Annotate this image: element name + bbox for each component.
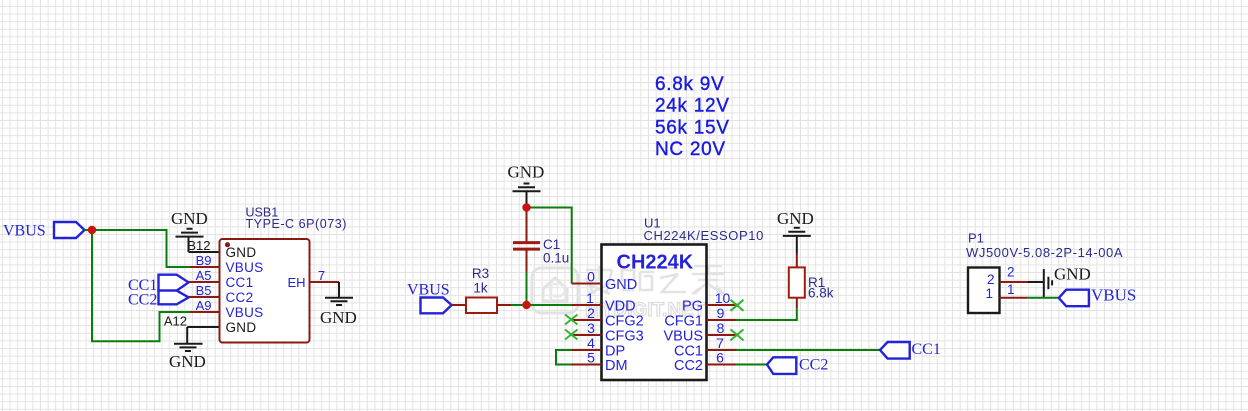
- svg-text:VBUS: VBUS: [664, 329, 704, 345]
- svg-text:CH224K/ESSOP10: CH224K/ESSOP10: [644, 228, 764, 243]
- svg-text:B12: B12: [187, 238, 210, 253]
- svg-text:GND: GND: [605, 277, 637, 293]
- wire GND to B12 pin: [189, 251, 220, 253]
- connector P1 body: [966, 231, 1123, 314]
- U1 pin 9 CFG1: [664, 305, 736, 330]
- svg-text:GND: GND: [777, 209, 814, 228]
- U1 pin 6 CC2: [674, 350, 736, 375]
- U1 pin 5 DM: [572, 350, 628, 375]
- svg-text:CC1: CC1: [226, 275, 254, 290]
- svg-text:TYPE-C 6P(073): TYPE-C 6P(073): [246, 217, 347, 231]
- wire GND junction to U1 GND pin: [527, 208, 572, 284]
- wire CFG1 to R1: [736, 308, 797, 320]
- U1 pin 2 CFG2 (no-connect): [565, 305, 644, 330]
- svg-text:GND: GND: [1054, 265, 1091, 284]
- wire GND to A12 pin: [187, 326, 219, 328]
- svg-text:GND: GND: [508, 163, 545, 182]
- svg-text:24k 12V: 24k 12V: [655, 96, 730, 117]
- svg-text:NC 20V: NC 20V: [655, 139, 726, 160]
- svg-text:CFG1: CFG1: [664, 314, 703, 330]
- USB1 pin A5: [189, 268, 254, 290]
- connector USB1 TYPE-C body: [220, 206, 347, 343]
- U1 pin 8 VBUS (no-connect): [664, 320, 744, 345]
- svg-text:2: 2: [1007, 265, 1015, 280]
- resistor R3: [452, 266, 511, 313]
- P1 pin 1: [985, 282, 1027, 301]
- ground GND (above C1): [508, 163, 545, 208]
- net flag VBUS (right): [1059, 285, 1137, 306]
- svg-text:0.1u: 0.1u: [543, 251, 569, 266]
- U1 pin 4 DP: [572, 335, 626, 360]
- svg-text:3: 3: [587, 320, 595, 336]
- svg-text:6: 6: [716, 350, 724, 366]
- svg-text:CFG2: CFG2: [605, 314, 644, 330]
- svg-text:PG: PG: [682, 299, 703, 315]
- svg-text:0: 0: [587, 269, 595, 285]
- svg-text:6.8k: 6.8k: [808, 286, 834, 301]
- svg-text:B5: B5: [196, 283, 212, 298]
- svg-text:CC2: CC2: [674, 358, 703, 374]
- wire R3 to junction to U1 VDD: [511, 304, 572, 306]
- net flag VBUS (far left): [3, 222, 85, 240]
- svg-text:VBUS: VBUS: [226, 305, 264, 320]
- U1 pin 0 GND: [572, 269, 638, 294]
- svg-text:VBUS: VBUS: [3, 223, 46, 240]
- svg-text:8: 8: [717, 320, 725, 336]
- U1 pin 1 VDD: [572, 290, 636, 315]
- P1 pin 2: [987, 265, 1028, 288]
- svg-text:1: 1: [586, 290, 594, 306]
- svg-text:1: 1: [1007, 282, 1015, 297]
- wire CC2 pin to flag: [736, 364, 767, 366]
- svg-text:P1: P1: [968, 231, 984, 246]
- svg-text:GND: GND: [226, 245, 257, 260]
- wire CC1 pin to flag: [736, 349, 880, 351]
- svg-text:A9: A9: [196, 298, 212, 313]
- wire VBUS: junction to B9 pin: [92, 230, 190, 267]
- svg-text:VBUS: VBUS: [1091, 285, 1136, 304]
- svg-text:1: 1: [985, 286, 993, 301]
- ground GND (above R1): [777, 209, 814, 254]
- svg-text:GND: GND: [169, 352, 206, 371]
- wire DP to DM loop: [556, 350, 572, 365]
- IC U1 CH224K body: [602, 216, 764, 381]
- ground GND (at EH pin): [320, 282, 357, 327]
- svg-text:5: 5: [587, 350, 595, 366]
- capacitor C1: [513, 211, 569, 272]
- svg-text:A12: A12: [164, 314, 187, 329]
- wire P1 pin2 to GND: [1028, 281, 1044, 283]
- watermark logo house: [532, 268, 578, 313]
- svg-text:9: 9: [717, 305, 725, 321]
- svg-text:CH224K: CH224K: [617, 252, 694, 274]
- svg-text:VBUS: VBUS: [226, 260, 264, 275]
- svg-text:CC2: CC2: [799, 357, 828, 374]
- svg-text:VBUS: VBUS: [407, 282, 450, 299]
- note text CFG resistor table: [655, 74, 730, 160]
- svg-text:56k 15V: 56k 15V: [655, 117, 730, 138]
- net flag VBUS (middle): [407, 282, 452, 314]
- svg-text:DM: DM: [605, 358, 628, 374]
- USB1 pin B9: [190, 253, 263, 275]
- wire P1 pin1 to VBUS flag: [1028, 297, 1059, 299]
- svg-text:GND: GND: [320, 308, 357, 327]
- svg-text:A5: A5: [196, 268, 212, 283]
- wire VBUS: junction down and around to A9 pin: [92, 230, 190, 341]
- resistor R1: [789, 254, 834, 309]
- U1 pin 10 PG (no-connect): [682, 290, 743, 315]
- node junction at VDD row: [522, 301, 530, 309]
- net flag CC2 (right): [767, 357, 828, 374]
- svg-text:WJ500V-5.08-2P-14-00A: WJ500V-5.08-2P-14-00A: [966, 245, 1123, 260]
- net flag CC1 (left): [128, 275, 189, 294]
- svg-text:GND: GND: [226, 320, 257, 335]
- ground GND (bottom left, below A12): [169, 327, 206, 371]
- node junction above C1: [522, 203, 530, 211]
- svg-text:2: 2: [587, 305, 595, 321]
- svg-text:7: 7: [318, 268, 325, 283]
- USB1 pin 7 EH: [287, 268, 339, 290]
- svg-text:R3: R3: [472, 266, 489, 281]
- USB1 pin A9: [190, 298, 263, 320]
- svg-text:CFG3: CFG3: [605, 329, 644, 345]
- watermark text 数码之家: [586, 266, 724, 294]
- net flag CC1 (right): [880, 341, 941, 359]
- svg-text:CC2: CC2: [128, 292, 157, 309]
- ground GND (top left, above B12): [171, 209, 208, 252]
- svg-text:VDD: VDD: [605, 299, 636, 315]
- ground GND (at P1, rotated): [1044, 265, 1091, 298]
- svg-text:B9: B9: [196, 253, 212, 268]
- node junction at VBUS flag: [88, 226, 96, 234]
- IC U1 body fill underlay: [602, 245, 707, 381]
- net flag CC2 (left): [128, 291, 189, 309]
- U1 pin 7 CC1: [674, 335, 736, 360]
- wire VBUS: flag to junction: [85, 229, 93, 231]
- U1 pin 3 CFG3 (no-connect): [565, 320, 644, 345]
- svg-text:CC2: CC2: [226, 290, 254, 305]
- svg-text:1k: 1k: [473, 281, 488, 296]
- watermark text MYDIGIT.NET: [585, 300, 706, 321]
- svg-text:GND: GND: [171, 209, 208, 228]
- svg-text:10: 10: [715, 290, 731, 306]
- svg-text:EH: EH: [287, 275, 305, 290]
- USB1 pin B5: [189, 283, 254, 305]
- USB1 pin A12: [164, 314, 257, 336]
- svg-text:6.8k 9V: 6.8k 9V: [655, 74, 724, 95]
- USB1 pin B12: [187, 238, 256, 260]
- wire C1 to junction at VDD: [526, 272, 528, 306]
- svg-text:2: 2: [987, 272, 995, 287]
- svg-text:CC1: CC1: [912, 341, 941, 358]
